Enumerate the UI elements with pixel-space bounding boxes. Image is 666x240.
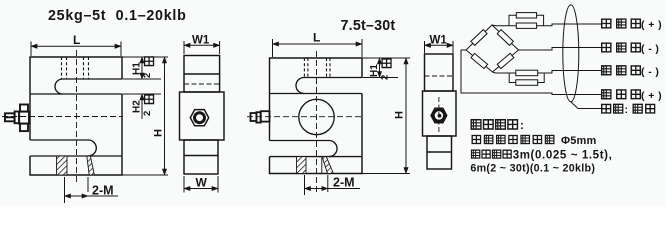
cable gland fitting left bbox=[251, 111, 270, 122]
dashed line in top column bbox=[184, 83, 220, 85]
title 7.5t-30t bbox=[341, 18, 396, 34]
dimension 2-M bbox=[305, 175, 361, 195]
dimension H1 line (middle) bbox=[379, 58, 381, 78]
upper slot with round end bbox=[55, 79, 122, 94]
dimension H2 line bbox=[141, 94, 143, 119]
horizontal centerline bbox=[247, 116, 362, 118]
svg-text:( - ): ( - ) bbox=[641, 43, 659, 55]
compensation resistor top on wire bbox=[516, 23, 536, 28]
hex nut face bbox=[431, 108, 447, 123]
svg-text::: : bbox=[520, 120, 524, 132]
svg-text:( + ): ( + ) bbox=[641, 19, 662, 31]
dimension 2-M bbox=[65, 177, 119, 203]
svg-text:Φ5mm: Φ5mm bbox=[561, 135, 597, 147]
svg-text:6m(2 ~ 30t)(0.1 ~ 20klb): 6m(2 ~ 30t)(0.1 ~ 20klb) bbox=[470, 162, 595, 174]
body outline bbox=[30, 57, 122, 175]
black excitation wire bbox=[493, 71, 602, 74]
svg-text::: : bbox=[625, 104, 629, 116]
upper slot with round end bbox=[296, 78, 362, 94]
svg-text:2: 2 bbox=[142, 111, 153, 116]
horizontal centerline bbox=[2, 116, 123, 118]
bottom column bbox=[184, 140, 218, 174]
dimension H1 label bbox=[132, 62, 143, 75]
hex nut face bbox=[190, 110, 208, 126]
wire label shield bbox=[602, 104, 655, 116]
cable sheath ellipse bbox=[563, 5, 579, 102]
lower slot with round end bbox=[30, 140, 96, 156]
svg-text:2: 2 bbox=[380, 75, 391, 80]
svg-text:2-M: 2-M bbox=[92, 184, 114, 198]
2chu label 2 bbox=[142, 95, 154, 116]
dimension W1 bbox=[184, 41, 220, 54]
svg-text:( + ): ( + ) bbox=[641, 90, 662, 102]
wire label black input bbox=[602, 66, 660, 78]
svg-text:H2: H2 bbox=[132, 100, 143, 113]
bottom hole hatched walls bbox=[57, 156, 95, 175]
center circle bbox=[299, 99, 334, 134]
dimension W1 bbox=[425, 41, 454, 53]
2chu label (2 places) bbox=[142, 57, 154, 78]
top column bbox=[184, 56, 220, 93]
compensation branch top bbox=[509, 15, 544, 25]
wire label white output bbox=[602, 43, 660, 55]
svg-text:2: 2 bbox=[142, 73, 153, 78]
nut center dot bbox=[438, 114, 442, 118]
vertical centerline bbox=[76, 50, 78, 183]
middle block bbox=[423, 91, 457, 136]
bridge diamond bbox=[466, 25, 519, 72]
strain gauge R1 top-left bbox=[471, 30, 487, 46]
body outline bbox=[270, 58, 363, 174]
heading jiexian fangshi bbox=[471, 120, 524, 132]
svg-text:L: L bbox=[73, 33, 80, 47]
upper slot shelf line bbox=[30, 93, 122, 95]
strain gauge R2 top-right bbox=[497, 30, 513, 46]
bottom flange top line bbox=[30, 155, 122, 157]
strain gauge R3 bottom-left bbox=[471, 53, 488, 68]
line standard length bbox=[471, 149, 612, 161]
upper slot shelf line bbox=[270, 93, 363, 95]
nut ring bbox=[433, 110, 445, 122]
wire label red input bbox=[602, 19, 662, 31]
dimension H1 line bbox=[141, 57, 143, 79]
dimension H line bbox=[164, 57, 166, 175]
compensation resistor bottom branch bbox=[516, 80, 538, 86]
dimension W bbox=[184, 176, 218, 193]
svg-text:7.5t–30t: 7.5t–30t bbox=[341, 18, 396, 34]
nut centerline bbox=[438, 97, 440, 133]
red excitation wire bbox=[492, 24, 601, 26]
shield wire bbox=[571, 102, 602, 109]
compensation resistor top branch bbox=[516, 13, 536, 18]
svg-text:W1: W1 bbox=[430, 35, 448, 47]
top column bbox=[425, 54, 454, 91]
vertical centerline bbox=[316, 51, 318, 192]
svg-text:( - ): ( - ) bbox=[641, 66, 659, 78]
top threaded hole hidden lines bbox=[62, 57, 89, 79]
compensation resistor bottom on wire bbox=[516, 70, 538, 76]
2chu label bbox=[380, 59, 392, 80]
dashed line in top column bbox=[425, 75, 454, 77]
nut circle bbox=[195, 113, 205, 123]
green output wire bbox=[461, 50, 601, 95]
svg-text:L: L bbox=[313, 31, 320, 45]
bottom hole hatched walls bbox=[297, 157, 334, 174]
top threaded hole hidden lines bbox=[304, 58, 330, 78]
line 6m spec bbox=[470, 162, 595, 174]
svg-text:H1: H1 bbox=[369, 64, 380, 77]
svg-text:2-M: 2-M bbox=[333, 176, 355, 190]
compensation branch bottom bbox=[509, 73, 544, 83]
bottom column bbox=[427, 136, 452, 169]
dimension L bbox=[31, 42, 121, 57]
bottom flange top line bbox=[270, 156, 363, 158]
svg-text:25kg–5t 0.1–20klb: 25kg–5t 0.1–20klb bbox=[48, 8, 187, 24]
svg-text:W: W bbox=[196, 176, 208, 190]
svg-text:3m(0.025 ~ 1.5t),: 3m(0.025 ~ 1.5t), bbox=[513, 149, 613, 161]
svg-text:H1: H1 bbox=[132, 62, 143, 75]
svg-text:H: H bbox=[153, 129, 165, 137]
white output wire bbox=[519, 48, 602, 51]
dimension H2 label bbox=[132, 100, 143, 113]
cable gland fitting left bbox=[5, 105, 29, 132]
lower slot with round end bbox=[270, 141, 338, 157]
right extension lines bbox=[123, 57, 169, 175]
svg-text:H: H bbox=[394, 111, 406, 119]
wire label green output bbox=[602, 90, 662, 102]
dimension H line bbox=[405, 58, 407, 174]
title 25kg-5t 0.1-20klb bbox=[48, 8, 187, 24]
middle block bbox=[180, 92, 225, 140]
line cable spec bbox=[472, 135, 596, 147]
svg-text:W1: W1 bbox=[192, 35, 210, 47]
strain gauge R4 bottom-right bbox=[497, 53, 514, 68]
right extension lines bbox=[363, 58, 411, 174]
dimension L bbox=[273, 39, 363, 57]
